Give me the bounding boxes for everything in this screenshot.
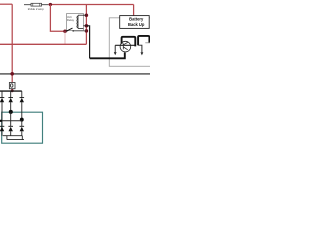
diode D1 bbox=[0, 97, 4, 99]
fuse F1 end ticks bbox=[33, 3, 40, 6]
fuse F1 leads bbox=[24, 4, 48, 6]
node relay right terminal 2 bbox=[85, 24, 89, 28]
relay U1 top pin bbox=[78, 14, 86, 16]
wire red left vertical x=12 bbox=[11, 4, 13, 91]
wire bottom y=139.6 bbox=[7, 139, 24, 141]
wire horizontal y=120.8 bbox=[0, 120, 22, 122]
transistor Q1 internals bbox=[123, 42, 127, 49]
diode column 2 lower stem bbox=[10, 112, 12, 136]
connector box on red feed bbox=[9, 83, 15, 89]
diode D6 bbox=[20, 125, 25, 127]
teal module box bbox=[2, 112, 43, 143]
node relay right terminal 1 bbox=[85, 13, 89, 17]
node relay bottom-left terminal bbox=[63, 29, 67, 33]
transistor Q1 circle bbox=[120, 41, 131, 52]
node relay right terminal 3 bbox=[85, 29, 89, 33]
wire black L from relay to battery box bbox=[86, 26, 89, 58]
diode column 1 lower stem bbox=[1, 121, 3, 136]
node left end of y=120.8 wire bbox=[0, 120, 2, 122]
node column 2 junction on teal line bbox=[9, 110, 13, 114]
diode column 1 stem bbox=[1, 91, 3, 121]
wire red vertical to relay coil bottom-left bbox=[50, 5, 65, 32]
thick wire loop over transistor bbox=[122, 37, 136, 47]
switch SW contact dot bbox=[66, 30, 68, 32]
svg-text:Battery: Battery bbox=[129, 17, 144, 22]
thick wire right loop bbox=[138, 36, 149, 45]
battery back up label box bbox=[120, 16, 150, 29]
node red on gray bus bbox=[10, 72, 14, 76]
diode column 3 stem bbox=[21, 91, 23, 126]
black bus y=91.1 bbox=[0, 90, 22, 92]
ground 2 arrow bbox=[141, 52, 144, 55]
wire through transistor to ground 1 bbox=[115, 44, 135, 46]
diode D5 bbox=[8, 125, 13, 127]
svg-text:trickle 2 amp: trickle 2 amp bbox=[28, 7, 44, 11]
fuse F1 body bbox=[31, 3, 42, 6]
svg-text:Back Up: Back Up bbox=[128, 22, 145, 27]
switch SW arm bbox=[67, 28, 72, 31]
diode column 3 lower stem bbox=[21, 131, 23, 136]
diode D4 bbox=[0, 125, 4, 127]
connector glyph bbox=[10, 84, 13, 88]
node column 3 junction above y=120.8 line bbox=[20, 118, 24, 122]
node junction at fuse output bbox=[49, 3, 52, 6]
wire faint red drop from relay common bbox=[64, 31, 66, 44]
relay U1 coil bbox=[77, 15, 79, 28]
diode D3 bbox=[20, 97, 25, 99]
wire jog to ground 2 bbox=[138, 45, 142, 52]
wire red top main horizontal bbox=[48, 4, 133, 6]
wire switch to right terminal bbox=[73, 30, 86, 32]
wire gray right stub bbox=[145, 42, 150, 44]
node red on black bus bbox=[11, 89, 14, 92]
wire bottom collector y=135.7 bbox=[3, 135, 23, 137]
wire drop x=6.9 bbox=[6, 136, 8, 140]
wire red long horizontal y=44 bbox=[0, 43, 86, 45]
svg-text:Relay: Relay bbox=[67, 18, 75, 22]
thick wire battery bottom feed bbox=[90, 52, 125, 58]
gray bus wire y=73.4 bbox=[0, 73, 150, 75]
wire red drop to battery label bbox=[133, 5, 135, 16]
relay U1 box bbox=[67, 14, 84, 31]
wire red top-left horizontal bbox=[0, 3, 12, 5]
ground 1 arrow bbox=[114, 52, 117, 55]
battery back up outer box bbox=[109, 18, 151, 67]
switch SW throw dot bbox=[72, 30, 74, 32]
wire red vertical x=86.4 relay right side bbox=[85, 5, 87, 45]
diode D2 bbox=[8, 97, 13, 99]
relay U1 bottom pin bbox=[78, 28, 83, 30]
wire drop x=22.3 bbox=[21, 136, 23, 140]
diode column 2 stem bbox=[10, 91, 12, 112]
relay U1 pin tick y=25.8 bbox=[83, 25, 86, 27]
